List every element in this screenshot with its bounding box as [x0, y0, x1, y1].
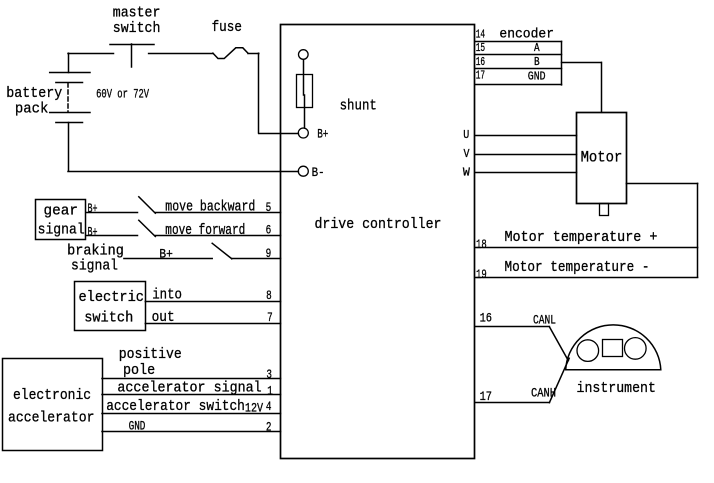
svg-text:fuse: fuse — [212, 19, 242, 36]
svg-text:B+: B+ — [317, 126, 328, 141]
svg-text:battery: battery — [6, 85, 62, 102]
svg-text:accelerator switch: accelerator switch — [106, 398, 245, 415]
svg-text:gear: gear — [44, 203, 79, 220]
svg-text:19: 19 — [476, 267, 487, 282]
svg-text:8: 8 — [266, 288, 272, 303]
svg-text:B+: B+ — [88, 224, 98, 239]
svg-text:B-: B- — [312, 165, 325, 180]
svg-text:move forward: move forward — [165, 222, 245, 239]
svg-text:60V or 72V: 60V or 72V — [96, 86, 149, 101]
svg-text:move backward: move backward — [165, 199, 255, 216]
svg-text:12V: 12V — [245, 400, 263, 415]
svg-text:shunt: shunt — [340, 97, 377, 114]
svg-text:7: 7 — [267, 310, 273, 325]
svg-text:encoder: encoder — [499, 27, 554, 43]
svg-text:2: 2 — [266, 420, 272, 435]
svg-text:9: 9 — [266, 246, 272, 261]
svg-text:signal: signal — [71, 258, 118, 275]
svg-text:GND: GND — [528, 70, 546, 83]
svg-text:18: 18 — [476, 237, 487, 252]
svg-text:15: 15 — [476, 42, 485, 55]
svg-text:switch: switch — [113, 20, 161, 37]
svg-text:positive: positive — [119, 346, 182, 363]
svg-text:switch: switch — [84, 310, 133, 327]
svg-text:into: into — [152, 287, 182, 304]
svg-text:accelerator signal: accelerator signal — [117, 380, 261, 397]
svg-text:pack: pack — [15, 101, 49, 118]
svg-text:4: 4 — [266, 399, 272, 414]
svg-text:16: 16 — [480, 310, 492, 325]
svg-text:5: 5 — [266, 200, 272, 215]
svg-text:B+: B+ — [88, 201, 98, 216]
svg-text:6: 6 — [266, 223, 272, 238]
svg-text:3: 3 — [266, 367, 272, 382]
svg-text:U: U — [463, 128, 469, 142]
svg-text:B+: B+ — [159, 246, 173, 261]
svg-text:CANH: CANH — [531, 385, 556, 400]
svg-text:CANL: CANL — [533, 313, 556, 328]
svg-text:drive controller: drive controller — [315, 216, 442, 233]
svg-text:signal: signal — [38, 222, 85, 239]
svg-text:A: A — [534, 42, 540, 55]
svg-text:out: out — [152, 309, 175, 326]
svg-text:W: W — [463, 165, 471, 179]
svg-text:electric: electric — [79, 289, 145, 306]
svg-text:17: 17 — [480, 389, 492, 404]
svg-text:Motor temperature +: Motor temperature + — [505, 229, 658, 246]
svg-text:1: 1 — [267, 383, 273, 398]
svg-text:16: 16 — [476, 56, 485, 69]
svg-text:V: V — [464, 147, 471, 161]
svg-text:B: B — [534, 56, 540, 69]
svg-text:14: 14 — [476, 29, 485, 42]
svg-text:GND: GND — [129, 418, 146, 433]
svg-text:pole: pole — [123, 362, 155, 379]
svg-text:instrument: instrument — [577, 380, 656, 397]
svg-text:17: 17 — [476, 70, 485, 83]
svg-text:accelerator: accelerator — [8, 410, 95, 427]
svg-text:Motor: Motor — [581, 149, 623, 167]
svg-text:electronic: electronic — [13, 387, 91, 404]
svg-text:Motor temperature -: Motor temperature - — [505, 259, 650, 276]
